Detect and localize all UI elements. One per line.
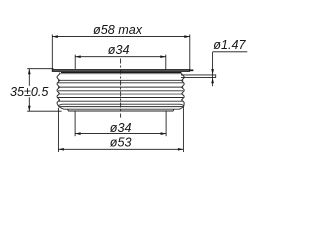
dim ⌀58 line <box>52 36 190 38</box>
centerline <box>120 59 122 118</box>
rib line 1 <box>59 73 181 75</box>
dim ⌀58 arrows <box>52 35 190 38</box>
rib line 5 <box>58 90 183 92</box>
dim ⌀1.47 arrows <box>211 69 214 83</box>
dim ⌀34 bottom: extension lines <box>75 111 166 137</box>
bottom pole face <box>68 109 175 111</box>
left wavy edge <box>57 73 60 106</box>
dim ⌀34 top: extension lines <box>75 55 166 70</box>
rib line 4 <box>58 86 183 88</box>
svg-text:35±0.5: 35±0.5 <box>10 85 49 99</box>
svg-text:ø53: ø53 <box>110 136 132 150</box>
dim line <box>58 148 183 150</box>
ribbed ceramic body <box>57 73 184 106</box>
rib line 3 <box>58 82 183 84</box>
dim ⌀1.47 leader <box>213 52 248 86</box>
dim ⌀34 top arrows <box>75 55 166 58</box>
svg-text:ø58 max: ø58 max <box>93 23 143 37</box>
gate lead wire <box>181 75 216 78</box>
dim ⌀53: extension lines <box>58 107 183 152</box>
svg-text:ø34: ø34 <box>110 121 132 135</box>
dim line segments (broken at text) <box>28 69 30 86</box>
dim line <box>75 133 166 135</box>
dim 35±0.5 extension lines <box>27 69 61 112</box>
svg-text:ø34: ø34 <box>108 43 130 57</box>
rib line 8 <box>58 100 183 102</box>
rib line 6 <box>58 93 183 95</box>
dim line <box>75 56 166 58</box>
dim ⌀34 bottom arrows <box>75 132 166 135</box>
dim ⌀53 arrows <box>58 148 183 151</box>
top flange ⌀58 disc <box>52 69 189 72</box>
rib line 2 <box>58 79 183 81</box>
dim 35±0.5 arrows <box>28 69 31 112</box>
right wavy edge <box>182 73 185 106</box>
bottom flange ⌀53 wedge <box>58 104 183 109</box>
svg-text:ø1.47: ø1.47 <box>213 38 246 52</box>
dim ⌀58 max: extension lines <box>52 34 190 70</box>
rib line 7 <box>58 97 183 99</box>
flange seal lip tab (right) <box>190 69 194 71</box>
